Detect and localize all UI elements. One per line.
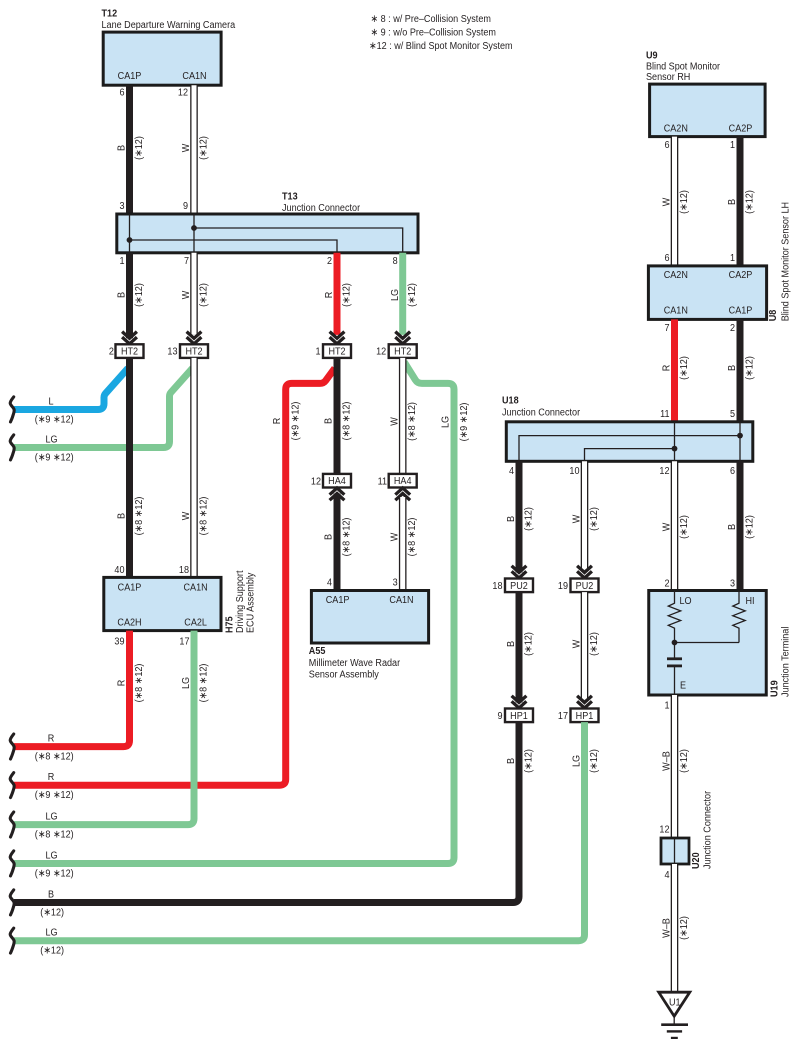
- svg-text:PU2: PU2: [510, 580, 528, 592]
- svg-text:T13: T13: [282, 191, 298, 203]
- T13 junction dot on W: [191, 225, 197, 231]
- U19 internal wire to capacitor: [674, 643, 676, 658]
- svg-text:9: 9: [497, 710, 502, 722]
- connector 17 HP1: [558, 709, 599, 723]
- svg-text:B: B: [727, 199, 739, 205]
- svg-text:LO: LO: [680, 595, 692, 607]
- svg-text:(∗12): (∗12): [678, 515, 690, 539]
- svg-text:19: 19: [558, 580, 568, 592]
- shield arrow into PU2 at x=519.0: [512, 566, 527, 573]
- svg-text:LG: LG: [389, 289, 401, 301]
- svg-text:(∗12): (∗12): [588, 632, 600, 656]
- wire W (*12) from U18 pin 12 to U19 pin 2: [659, 461, 690, 590]
- connector 2 HT2: [109, 344, 144, 358]
- wire B (*12) from U9 CA2P pin 1 to U8 CA2P pin 1: [727, 137, 756, 266]
- svg-text:LG: LG: [45, 927, 57, 939]
- svg-text:1: 1: [730, 139, 735, 151]
- svg-text:1: 1: [730, 253, 735, 265]
- svg-text:(∗8 ∗12): (∗8 ∗12): [341, 518, 353, 557]
- svg-text:(∗8 ∗12): (∗8 ∗12): [407, 402, 419, 441]
- svg-text:B: B: [727, 524, 739, 530]
- svg-text:Millimeter Wave Radar: Millimeter Wave Radar: [309, 657, 401, 669]
- svg-text:CA1N: CA1N: [184, 582, 208, 594]
- svg-text:4: 4: [664, 869, 670, 881]
- svg-text:B: B: [323, 418, 335, 424]
- svg-text:E: E: [680, 680, 687, 692]
- wire B (*8 *12) from HT2 to connector HA4: [323, 358, 353, 474]
- svg-text:2: 2: [730, 322, 735, 334]
- svg-text:B: B: [506, 758, 518, 764]
- U19 internal wire capacitor to E: [674, 667, 676, 695]
- wire LG (*12) from HP1 down to edge: [14, 722, 600, 957]
- svg-text:∗ 9 : w/o Pre–Collision System: ∗ 9 : w/o Pre–Collision System: [371, 27, 496, 39]
- U18 junction dot on B: [737, 433, 743, 439]
- connector 18 PU2: [492, 579, 533, 593]
- shield arrow into HT2 at x=129.5: [122, 332, 137, 339]
- svg-text:3: 3: [730, 578, 735, 590]
- svg-text:(∗9 ∗12): (∗9 ∗12): [290, 402, 302, 441]
- wire-continuation squiggle for LG: [10, 435, 14, 460]
- component U9 Blind Spot Monitor Sensor RH: [646, 50, 765, 136]
- svg-text:(∗12): (∗12): [341, 283, 353, 307]
- U18 junction dot on R/W: [672, 446, 678, 452]
- svg-text:17: 17: [558, 710, 568, 722]
- wire-continuation squiggle for LG lower: [10, 851, 14, 876]
- svg-text:(∗12): (∗12): [678, 749, 690, 773]
- svg-text:(∗12): (∗12): [407, 283, 419, 307]
- wire R (*12) from T13 pin 2 to connector HT2: [324, 253, 353, 335]
- wire W (*12) from T12 CA1N pin 12 to T13 pin 9: [178, 85, 210, 214]
- svg-text:12: 12: [178, 87, 188, 99]
- svg-text:W: W: [181, 290, 193, 299]
- connector 11 HA4: [378, 474, 417, 488]
- svg-text:(∗12): (∗12): [588, 507, 600, 531]
- svg-text:U20: U20: [690, 852, 702, 869]
- svg-text:U8: U8: [767, 309, 779, 321]
- svg-text:2: 2: [109, 346, 114, 358]
- svg-text:Junction Connector: Junction Connector: [702, 790, 714, 869]
- svg-text:18: 18: [179, 565, 189, 577]
- svg-text:HT2: HT2: [185, 346, 202, 358]
- svg-text:U19: U19: [769, 680, 781, 697]
- shield arrow into HP1 at x=584.5: [577, 696, 592, 703]
- svg-text:W: W: [661, 197, 673, 206]
- wire-continuation squiggle for LG middle: [10, 812, 14, 837]
- svg-text:1: 1: [315, 346, 320, 358]
- svg-text:12: 12: [659, 824, 669, 836]
- svg-text:LG: LG: [45, 434, 57, 446]
- svg-text:Junction Terminal: Junction Terminal: [780, 627, 792, 697]
- wire B (*12) from U18 pin 4 to connector PU2: [506, 461, 535, 572]
- svg-text:CA2L: CA2L: [184, 617, 207, 629]
- svg-text:LG: LG: [181, 677, 193, 689]
- svg-text:CA1N: CA1N: [389, 595, 413, 607]
- svg-text:10: 10: [569, 465, 580, 477]
- svg-text:R: R: [324, 292, 336, 299]
- svg-text:(∗9 ∗12): (∗9 ∗12): [458, 403, 470, 442]
- ground U1: [659, 992, 690, 1038]
- wire B (*12) from U8 CA1P pin 2 to U18 pin 5: [727, 319, 756, 421]
- connector 13 HT2: [167, 344, 208, 358]
- svg-text:3: 3: [119, 201, 124, 213]
- wire L (*9 *12) branch to left: [14, 368, 128, 425]
- svg-text:B: B: [116, 292, 128, 298]
- svg-text:(∗12): (∗12): [523, 749, 535, 773]
- wire W-B (*12) from U20 pin 4 to ground: [661, 864, 690, 991]
- svg-text:Blind Spot Monitor Sensor LH: Blind Spot Monitor Sensor LH: [780, 202, 792, 321]
- component U8 Blind Spot Monitor Sensor LH: [648, 266, 766, 320]
- svg-text:R: R: [48, 733, 55, 745]
- svg-text:4: 4: [509, 465, 515, 477]
- svg-text:7: 7: [664, 322, 669, 334]
- svg-text:W–B: W–B: [661, 918, 673, 938]
- svg-text:B: B: [323, 534, 335, 540]
- shield arrow out of HA4 at x=402.7: [395, 494, 410, 501]
- svg-text:11: 11: [378, 476, 387, 488]
- svg-text:(∗8 ∗12): (∗8 ∗12): [35, 829, 74, 841]
- svg-text:U1: U1: [669, 997, 681, 1009]
- svg-text:(∗12): (∗12): [744, 515, 756, 539]
- svg-text:2: 2: [664, 578, 669, 590]
- wire B (*8 *12) from HA4 to A55 CA1P pin 4: [323, 494, 353, 591]
- svg-text:HT2: HT2: [394, 346, 411, 358]
- svg-text:∗ 8 : w/ Pre–Collision System: ∗ 8 : w/ Pre–Collision System: [371, 14, 491, 26]
- wire LG (*12) from T13 pin 8 to connector HT2: [389, 253, 418, 335]
- svg-text:12: 12: [311, 476, 321, 488]
- svg-text:(∗9 ∗12): (∗9 ∗12): [35, 452, 74, 464]
- junction connector T13: [117, 191, 418, 253]
- svg-text:1: 1: [664, 700, 669, 712]
- wire B (*12) from U18 pin 6 to U19 pin 3: [727, 461, 756, 590]
- wire-continuation squiggle for L: [10, 397, 14, 422]
- shield arrow into HT2 at x=402.7: [395, 332, 410, 339]
- svg-text:Lane Departure Warning Camera: Lane Departure Warning Camera: [102, 20, 236, 32]
- svg-text:W: W: [181, 143, 193, 152]
- U18 internal branch to pin 10: [585, 449, 675, 462]
- svg-text:13: 13: [167, 346, 177, 358]
- svg-text:HT2: HT2: [121, 346, 138, 358]
- svg-text:W: W: [571, 514, 583, 523]
- svg-text:B: B: [48, 889, 54, 901]
- svg-text:CA2N: CA2N: [664, 123, 688, 135]
- wire B (*8 *12) from HT2 to H75 CA1P pin 40: [114, 358, 145, 578]
- wire LG (*9 *12) branch from HT2 down-right to edge: [14, 362, 470, 880]
- svg-text:HA4: HA4: [328, 476, 346, 488]
- svg-text:4: 4: [327, 577, 333, 589]
- wire W-B (*12) from U19 pin 1 to U20 pin 12: [659, 695, 690, 838]
- svg-text:CA1P: CA1P: [118, 582, 142, 594]
- svg-text:CA1N: CA1N: [664, 305, 688, 317]
- shield arrow out of HA4 at x=337.0: [330, 494, 345, 501]
- svg-text:T12: T12: [102, 8, 118, 20]
- wire R (*9 *12) branch from HT2 down-left to edge: [14, 368, 335, 801]
- U18 internal wire pin11-pin12: [674, 422, 676, 462]
- wire-continuation squiggle for LG bottom: [10, 928, 14, 953]
- svg-text:R: R: [48, 771, 55, 783]
- wire W (*8 *12) from HA4 to A55 CA1N pin 3: [389, 497, 419, 591]
- wire W (*8 *12) from HT2 to connector HA4: [389, 358, 419, 474]
- svg-text:A55: A55: [309, 645, 326, 657]
- U19 internal wire LO-HI: [675, 642, 740, 644]
- component U19 Junction Terminal: [649, 591, 767, 696]
- svg-text:W: W: [389, 416, 401, 425]
- resistor LO inside U19: [668, 591, 680, 643]
- svg-text:R: R: [271, 418, 283, 425]
- svg-text:W: W: [661, 522, 673, 531]
- T13 internal branch to pin 8: [194, 228, 403, 253]
- wire W (*12) from U18 pin 10 to connector PU2: [569, 461, 600, 569]
- wire B (*12) from T13 pin 1 to connector HT2: [116, 253, 145, 338]
- svg-text:CA1P: CA1P: [729, 305, 753, 317]
- svg-text:6: 6: [664, 253, 669, 265]
- U18 internal wire pin5-pin6: [739, 422, 741, 462]
- svg-text:3: 3: [393, 577, 398, 589]
- connector 12 HT2: [376, 344, 417, 358]
- svg-text:(∗9 ∗12): (∗9 ∗12): [35, 868, 74, 880]
- svg-text:7: 7: [184, 256, 189, 268]
- resistor HI inside U19: [733, 591, 745, 643]
- shield arrow into PU2 at x=584.5: [577, 566, 592, 573]
- wire-continuation squiggle for R upper: [10, 734, 14, 759]
- svg-text:B: B: [506, 641, 518, 647]
- svg-text:Sensor Assembly: Sensor Assembly: [309, 669, 379, 681]
- svg-text:6: 6: [119, 87, 124, 99]
- wire W (*8 *12) from HT2 to H75 CA1N pin 18: [179, 358, 210, 578]
- svg-text:(∗8 ∗12): (∗8 ∗12): [133, 664, 145, 703]
- svg-text:6: 6: [664, 139, 669, 151]
- shield arrow into HT2 at x=337.0: [330, 332, 345, 339]
- svg-text:ECU Assembly: ECU Assembly: [245, 572, 257, 633]
- svg-text:39: 39: [114, 636, 124, 648]
- component T12 Lane Departure Warning Camera: [102, 8, 236, 85]
- wire B (*12) from PU2 to connector HP1: [506, 592, 535, 702]
- component H75 Driving Support ECU Assembly: [104, 577, 221, 630]
- svg-text:W: W: [389, 532, 401, 541]
- svg-text:1: 1: [119, 256, 124, 268]
- svg-text:(∗12): (∗12): [523, 507, 535, 531]
- svg-text:∗12 : w/ Blind Spot Monitor Sy: ∗12 : w/ Blind Spot Monitor System: [369, 41, 513, 53]
- svg-text:11: 11: [660, 408, 669, 420]
- svg-text:(∗8 ∗12): (∗8 ∗12): [407, 518, 419, 557]
- component A55 Millimeter Wave Radar Sensor Assembly: [309, 591, 429, 681]
- svg-text:CA2H: CA2H: [117, 617, 141, 629]
- svg-text:(∗12): (∗12): [133, 136, 145, 160]
- svg-text:(∗12): (∗12): [678, 190, 690, 214]
- U18 internal branch to pin 4: [519, 436, 740, 462]
- svg-text:(∗12): (∗12): [744, 190, 756, 214]
- T13 internal wire pin3-pin1: [129, 214, 131, 253]
- svg-text:CA1P: CA1P: [326, 595, 350, 607]
- shield arrow into HP1 at x=519.0: [512, 696, 527, 703]
- svg-text:R: R: [116, 680, 128, 687]
- svg-text:(∗12): (∗12): [678, 916, 690, 940]
- svg-text:(∗9 ∗12): (∗9 ∗12): [35, 414, 74, 426]
- svg-text:(∗12): (∗12): [133, 283, 145, 307]
- svg-text:HP1: HP1: [576, 710, 594, 722]
- svg-text:LG: LG: [571, 755, 583, 767]
- wire R (*12) from U8 CA1N pin 7 to U18 pin 11: [660, 319, 690, 421]
- svg-text:(∗12): (∗12): [588, 749, 600, 773]
- svg-text:B: B: [116, 145, 128, 151]
- U19 junction dot: [672, 640, 678, 646]
- connector 1 HT2: [315, 344, 351, 358]
- svg-text:12: 12: [376, 346, 386, 358]
- svg-text:R: R: [661, 365, 673, 372]
- shield arrow into HT2 at x=194.0: [187, 332, 202, 339]
- svg-text:(∗12): (∗12): [523, 632, 535, 656]
- wire-continuation squiggle for R lower: [10, 773, 14, 798]
- svg-text:HA4: HA4: [394, 476, 412, 488]
- junction connector U20: [661, 838, 689, 864]
- svg-text:LG: LG: [440, 416, 452, 428]
- svg-text:HT2: HT2: [328, 346, 345, 358]
- svg-text:(∗12): (∗12): [198, 283, 210, 307]
- svg-text:(∗12): (∗12): [40, 907, 64, 919]
- capacitor inside U19: [667, 657, 682, 660]
- svg-text:LG: LG: [45, 811, 57, 823]
- svg-text:9: 9: [183, 201, 188, 213]
- svg-text:(∗12): (∗12): [40, 945, 64, 957]
- svg-text:CA2N: CA2N: [664, 269, 688, 281]
- svg-text:U18: U18: [502, 395, 519, 407]
- svg-text:HP1: HP1: [510, 710, 528, 722]
- T13 internal wire pin9-pin7: [193, 214, 195, 253]
- svg-text:LG: LG: [45, 850, 57, 862]
- svg-text:Sensor RH: Sensor RH: [646, 72, 690, 84]
- wire B (*12) from HP1 down to edge: [14, 722, 535, 919]
- svg-text:(∗8 ∗12): (∗8 ∗12): [133, 497, 145, 536]
- svg-text:W: W: [181, 511, 193, 520]
- junction connector U18: [502, 395, 753, 461]
- wire W (*12) from T13 pin 7 to connector HT2: [181, 253, 210, 335]
- T13 junction dot on B: [127, 237, 133, 243]
- svg-text:Junction Connector: Junction Connector: [282, 203, 361, 215]
- svg-text:2: 2: [327, 256, 332, 268]
- svg-text:B: B: [727, 365, 739, 371]
- svg-text:(∗12): (∗12): [744, 356, 756, 380]
- svg-text:W–B: W–B: [661, 751, 673, 771]
- connector 19 PU2: [558, 579, 599, 593]
- svg-text:PU2: PU2: [576, 580, 594, 592]
- svg-text:W: W: [571, 639, 583, 648]
- svg-text:5: 5: [730, 408, 736, 420]
- svg-text:6: 6: [730, 465, 735, 477]
- svg-text:HI: HI: [746, 595, 755, 607]
- svg-text:(∗8 ∗12): (∗8 ∗12): [341, 402, 353, 441]
- svg-text:18: 18: [492, 580, 502, 592]
- svg-text:(∗8 ∗12): (∗8 ∗12): [198, 497, 210, 536]
- svg-text:12: 12: [659, 465, 669, 477]
- svg-text:40: 40: [114, 565, 125, 577]
- connector 9 HP1: [497, 709, 533, 723]
- svg-text:(∗8 ∗12): (∗8 ∗12): [198, 664, 210, 703]
- svg-text:(∗9 ∗12): (∗9 ∗12): [35, 790, 74, 802]
- svg-text:CA2P: CA2P: [729, 269, 753, 281]
- wire B (*12) from T12 CA1P pin 6 to T13 pin 3: [116, 85, 145, 214]
- svg-text:CA1P: CA1P: [118, 71, 142, 83]
- svg-text:8: 8: [393, 256, 398, 268]
- svg-text:B: B: [116, 513, 128, 519]
- wire R (*8 *12) from H75 CA2H pin 39 to edge: [14, 631, 145, 763]
- svg-text:CA2P: CA2P: [729, 123, 753, 135]
- svg-text:17: 17: [179, 636, 189, 648]
- connector 12 HA4: [311, 474, 351, 488]
- svg-text:CA1N: CA1N: [182, 71, 206, 83]
- wire W (*12) from U9 CA2N pin 6 to U8 CA2N pin 6: [661, 137, 690, 266]
- wire W (*12) from PU2 to connector HP1: [571, 592, 600, 699]
- svg-text:L: L: [48, 396, 54, 408]
- wire-continuation squiggle for B lower: [10, 890, 14, 915]
- svg-text:B: B: [506, 516, 518, 522]
- T13 internal branch to pin 2: [130, 240, 338, 253]
- wire LG (*9 *12) branch to left: [14, 368, 193, 463]
- svg-text:(∗12): (∗12): [678, 356, 690, 380]
- svg-text:(∗12): (∗12): [198, 136, 210, 160]
- svg-text:Junction Connector: Junction Connector: [502, 407, 581, 419]
- svg-text:(∗8 ∗12): (∗8 ∗12): [35, 751, 74, 763]
- wire LG (*8 *12) from H75 CA2L pin 17 to edge: [14, 631, 210, 841]
